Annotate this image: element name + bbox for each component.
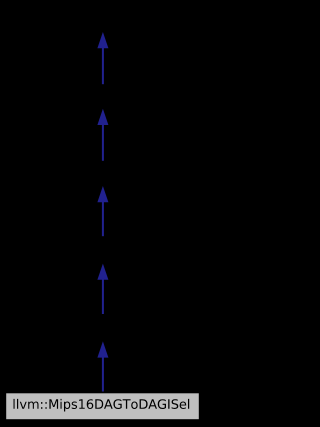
arrow 4 [97, 264, 108, 314]
arrow 5 (edge into llvm::Mips16DAGToDAGISel) [97, 341, 108, 391]
node box llvm::Mips16DAGToDAGISel [6, 393, 199, 419]
node label [14, 399, 190, 412]
inheritance graph for llvm::Mips16DAGToDAGISel [0, 0, 205, 427]
arrow 3 [97, 186, 108, 236]
arrow 2 [97, 109, 108, 161]
arrow 1 (topmost inheritance edge) [97, 32, 108, 84]
